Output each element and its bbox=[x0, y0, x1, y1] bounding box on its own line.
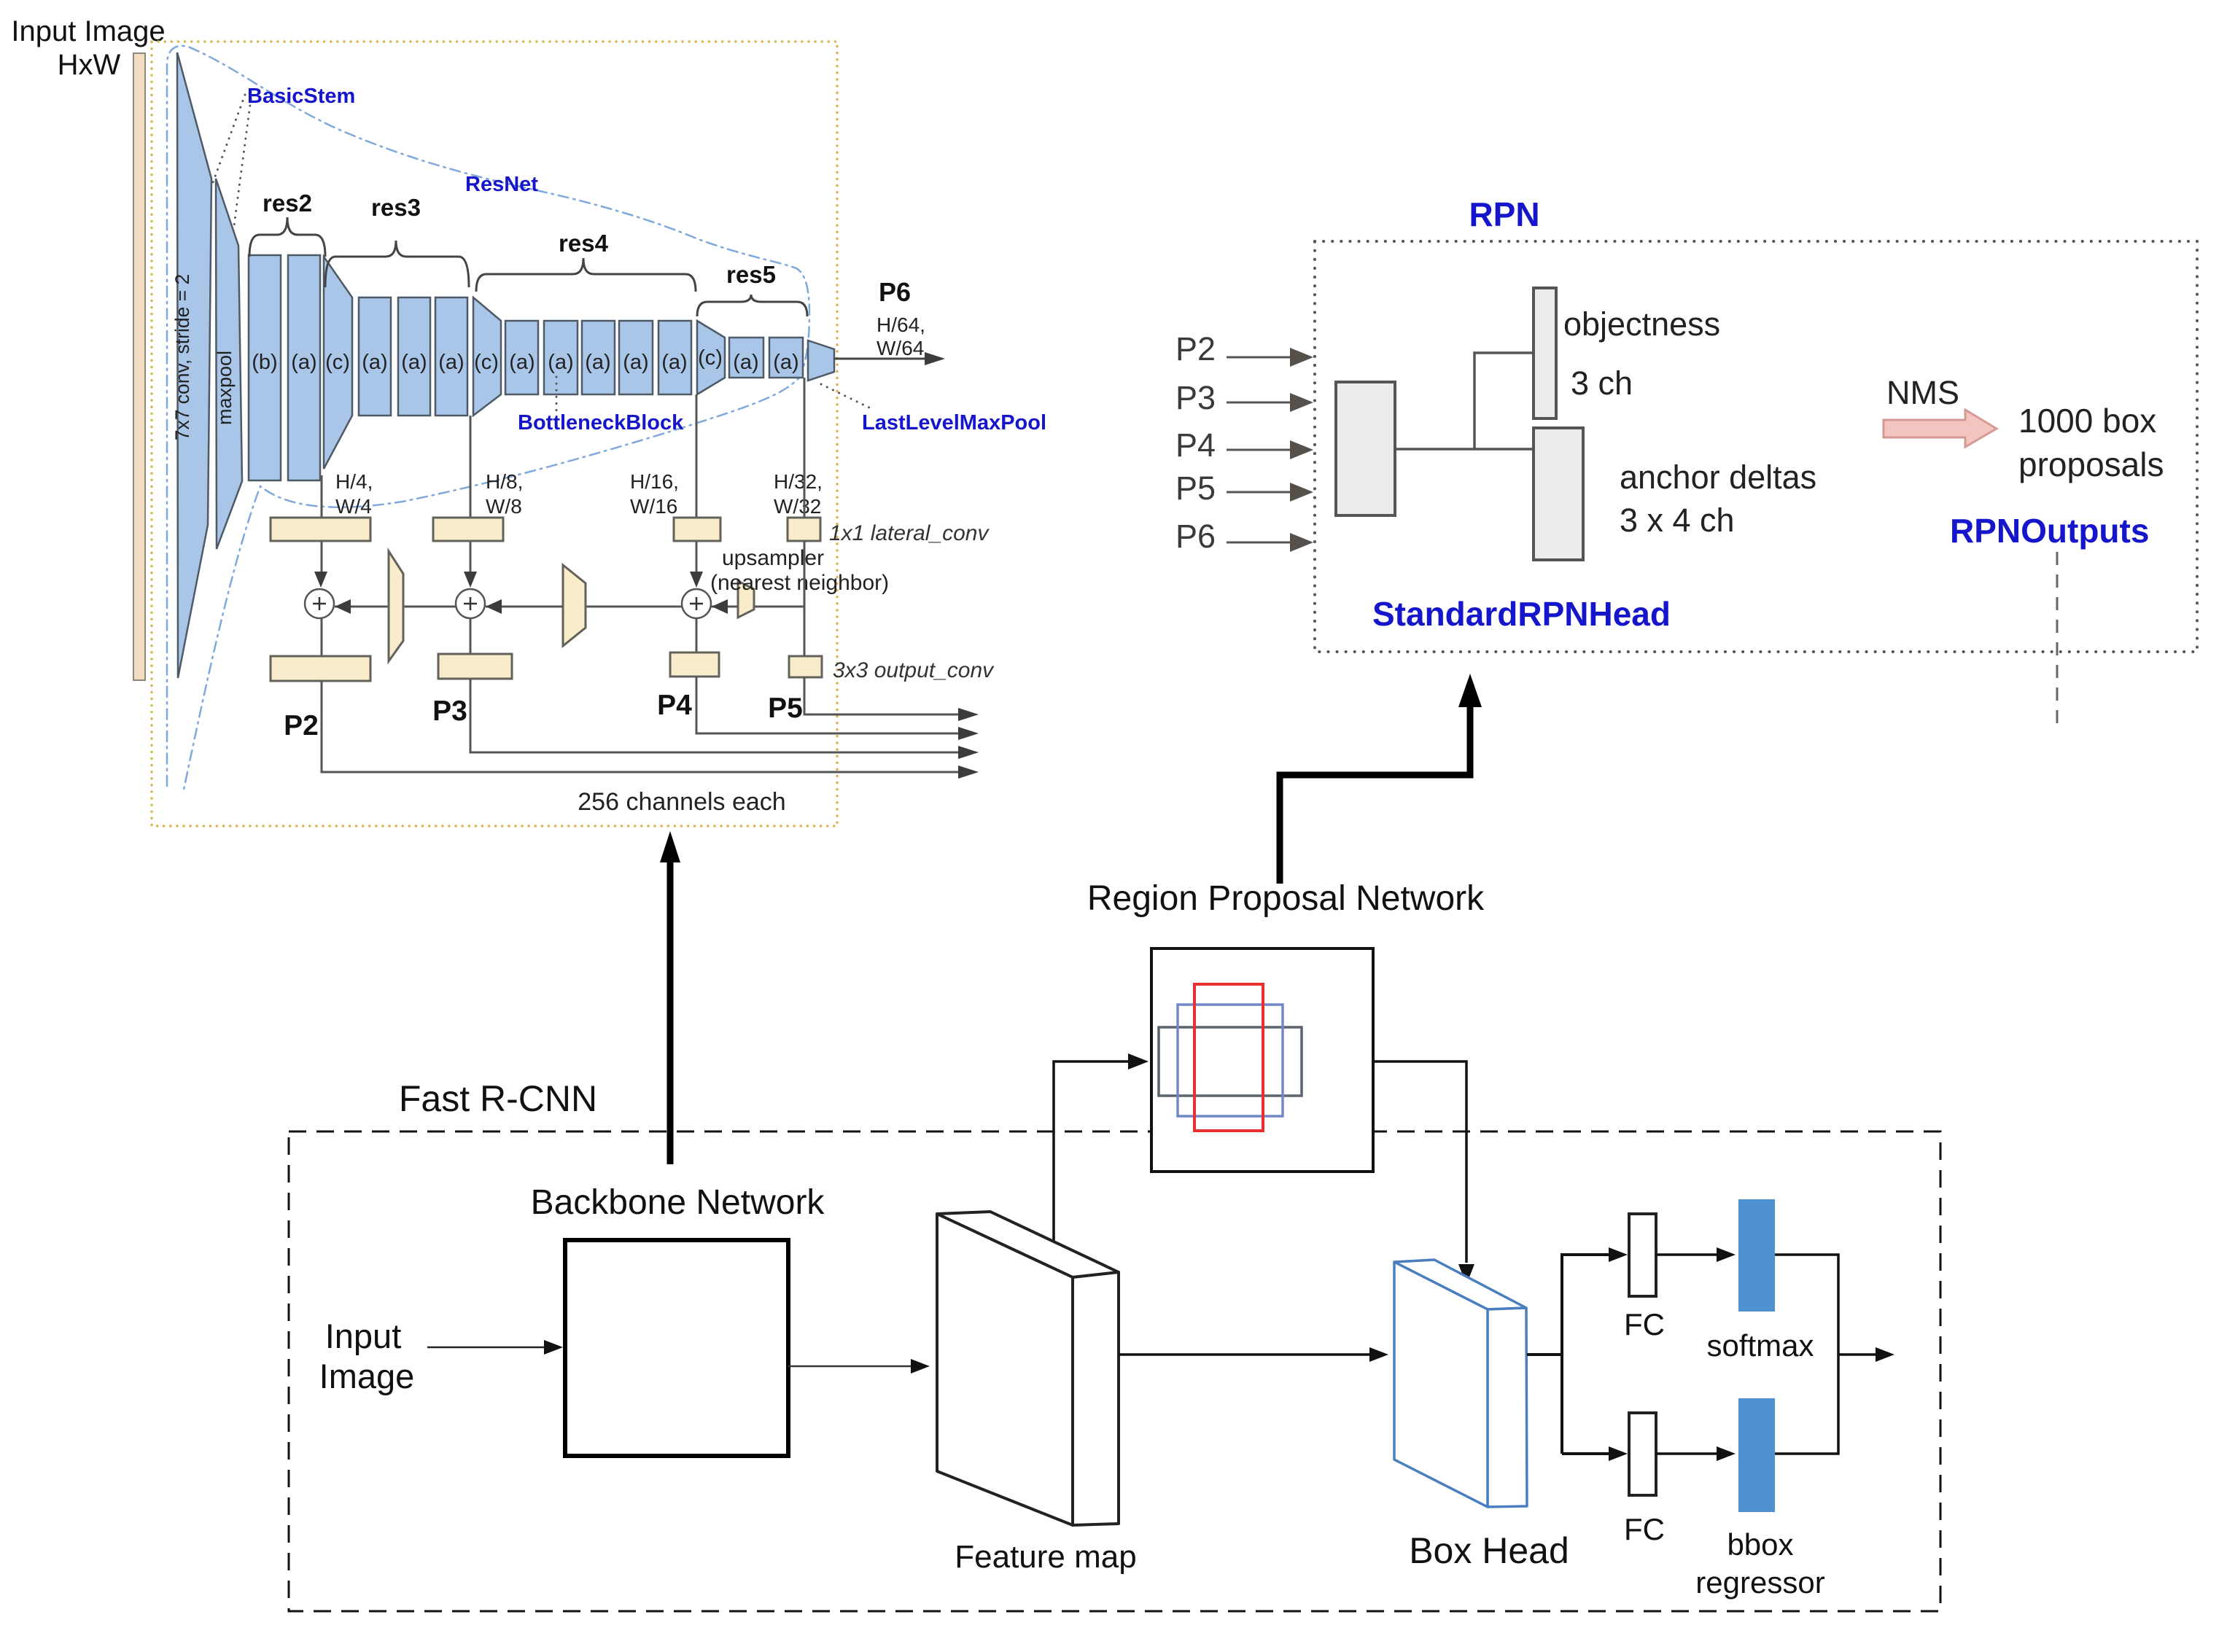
svg-text:res4: res4 bbox=[559, 230, 609, 257]
svg-text:P3: P3 bbox=[1175, 379, 1216, 416]
svg-text:P5: P5 bbox=[1175, 470, 1216, 507]
svg-text:(a): (a) bbox=[509, 351, 535, 374]
svg-text:H/8,: H/8, bbox=[486, 470, 523, 493]
thick arrow Backbone Network to FPN bbox=[667, 860, 674, 1164]
wire P5 down and out bbox=[804, 541, 961, 714]
arrowhead into sum P3 bbox=[486, 599, 502, 614]
wire P3 down and out bbox=[470, 679, 961, 752]
res5 block (a) 1 bbox=[729, 338, 763, 378]
svg-text:H/16,: H/16, bbox=[630, 470, 679, 493]
sum node P4 bbox=[682, 589, 711, 618]
wire P2 down and out bbox=[322, 681, 961, 772]
FPN yellow dotted border bbox=[152, 42, 837, 826]
dotted pointer BasicStem to 7x7 conv bbox=[191, 95, 245, 242]
anchor rect gray bbox=[1159, 1027, 1302, 1096]
conv block 7x7 stem bbox=[177, 52, 211, 678]
svg-text:Region Proposal Network: Region Proposal Network bbox=[1087, 879, 1485, 918]
svg-text:P6: P6 bbox=[1175, 518, 1216, 555]
wire column P5 top bbox=[804, 378, 806, 519]
svg-text:H/32,: H/32, bbox=[774, 470, 823, 493]
objectness head box bbox=[1534, 288, 1556, 418]
brace res2 bbox=[249, 217, 325, 257]
svg-text:(a): (a) bbox=[661, 351, 687, 374]
svg-text:(a): (a) bbox=[362, 351, 387, 374]
RPNOutputs dashed wire bbox=[2056, 552, 2059, 729]
res3 block (a) 1 bbox=[359, 297, 391, 416]
sum node P2 bbox=[305, 589, 334, 618]
output conv box P2 bbox=[271, 656, 370, 681]
NMS pink arrow bbox=[1884, 410, 1997, 447]
svg-text:LastLevelMaxPool: LastLevelMaxPool bbox=[862, 411, 1046, 435]
res3 block (a) 2 bbox=[398, 297, 430, 416]
res4 block (a) 4 bbox=[619, 321, 653, 394]
lateral conv box P2 bbox=[271, 518, 370, 541]
wire FC1 to softmax bbox=[1656, 1253, 1724, 1256]
RPN conv box bbox=[1336, 382, 1395, 515]
res3 block (a) 3 bbox=[435, 297, 467, 416]
svg-text:Image: Image bbox=[319, 1357, 415, 1395]
svg-text:H/64,: H/64, bbox=[877, 313, 925, 336]
svg-text:Backbone Network: Backbone Network bbox=[531, 1183, 825, 1222]
wire P2 into RPN bbox=[1227, 356, 1292, 359]
svg-text:Input: Input bbox=[325, 1317, 402, 1355]
thick elbow arrow RPN label to RPN box bbox=[1280, 704, 1470, 884]
wire P4 down and out bbox=[696, 677, 961, 733]
lateral conv box P5 bbox=[788, 518, 820, 541]
wire P6 out of LastLevelMaxPool bbox=[834, 358, 928, 360]
svg-text:3x3 output_conv: 3x3 output_conv bbox=[833, 658, 995, 682]
svg-text:RPNOutputs: RPNOutputs bbox=[1950, 512, 2149, 550]
dotted pointer BasicStem to maxpool bbox=[226, 99, 251, 286]
wire P3 into RPN bbox=[1227, 402, 1292, 404]
lateral conv box P3 bbox=[433, 518, 503, 541]
wire final output arrow bbox=[1838, 1353, 1883, 1356]
output conv box P4 bbox=[670, 652, 719, 677]
wire feature map to box head bbox=[1119, 1353, 1377, 1356]
dotted pointer BottleneckBlock bbox=[556, 377, 558, 412]
wire sum to output conv P4 bbox=[696, 618, 698, 654]
wire outputs merge bbox=[1775, 1255, 1838, 1454]
wire lateral into sum P3 bbox=[470, 541, 472, 574]
res4 block (a) 1 bbox=[505, 321, 538, 394]
svg-text:BasicStem: BasicStem bbox=[247, 85, 355, 108]
anchor rect blue bbox=[1178, 1005, 1283, 1116]
svg-text:objectness: objectness bbox=[1563, 305, 1720, 343]
svg-text:Box Head: Box Head bbox=[1409, 1530, 1569, 1571]
upsampler trapezoid P2 bbox=[389, 551, 403, 661]
res5 block (c) bbox=[697, 321, 725, 394]
svg-text:W/8: W/8 bbox=[486, 495, 522, 518]
svg-text:W/32: W/32 bbox=[774, 495, 821, 518]
res5 block (a) 2 bbox=[769, 338, 803, 378]
svg-text:P2: P2 bbox=[1175, 330, 1216, 367]
svg-text:HxW: HxW bbox=[58, 49, 121, 81]
svg-text:(a): (a) bbox=[585, 351, 610, 374]
svg-text:res3: res3 bbox=[371, 194, 421, 221]
svg-text:proposals: proposals bbox=[2018, 445, 2164, 483]
FC box 1 bbox=[1629, 1214, 1656, 1296]
svg-text:P4: P4 bbox=[1175, 426, 1216, 464]
svg-text:maxpool: maxpool bbox=[214, 351, 236, 425]
res4 block (a) 3 bbox=[582, 321, 615, 394]
svg-text:(b): (b) bbox=[252, 351, 277, 374]
arrowhead into sum P4 bbox=[712, 599, 728, 614]
output conv box P5 bbox=[789, 656, 822, 677]
svg-text:RPN: RPN bbox=[1469, 195, 1539, 233]
upsampler trapezoid P4 bbox=[738, 581, 754, 617]
bbox regressor block bbox=[1738, 1398, 1775, 1512]
softmax block bbox=[1738, 1199, 1775, 1312]
wire sum to output conv P3 bbox=[470, 618, 472, 655]
svg-text:(a): (a) bbox=[438, 351, 464, 374]
svg-text:(c): (c) bbox=[698, 346, 723, 370]
sum node P3 bbox=[456, 589, 485, 618]
brace res5 bbox=[697, 295, 807, 316]
wire backbone to feature map bbox=[788, 1365, 919, 1368]
RPN dotted box bbox=[1315, 241, 2197, 652]
res4 block (c) bbox=[473, 297, 501, 416]
ResNet dash-dot outline bbox=[167, 46, 809, 790]
svg-text:1x1 lateral_conv: 1x1 lateral_conv bbox=[829, 521, 990, 545]
svg-text:P5: P5 bbox=[768, 693, 803, 724]
svg-text:H/4,: H/4, bbox=[335, 470, 373, 493]
res2 block (a) bbox=[288, 255, 320, 480]
svg-text:(a): (a) bbox=[623, 351, 648, 374]
wire column P4 top bbox=[696, 394, 698, 519]
brace res4 bbox=[476, 258, 696, 292]
svg-text:P4: P4 bbox=[657, 690, 692, 721]
FC box 2 bbox=[1629, 1413, 1656, 1495]
svg-text:W/64: W/64 bbox=[877, 337, 924, 359]
svg-text:res2: res2 bbox=[263, 190, 312, 217]
anchor deltas head box bbox=[1534, 428, 1583, 560]
wire feature map to RPN anchors box bbox=[1054, 1061, 1132, 1253]
svg-text:upsampler: upsampler bbox=[722, 546, 824, 570]
lateral conv box P4 bbox=[674, 518, 720, 541]
svg-text:ResNet: ResNet bbox=[465, 173, 538, 196]
wire P4 into RPN bbox=[1227, 449, 1292, 451]
svg-text:P6: P6 bbox=[879, 277, 911, 307]
maxpool block bbox=[216, 179, 242, 549]
svg-text:3 x 4 ch: 3 x 4 ch bbox=[1620, 502, 1735, 539]
svg-text:FC: FC bbox=[1624, 1307, 1665, 1341]
upsampler trapezoid P3 bbox=[563, 565, 586, 646]
svg-text:NMS: NMS bbox=[1886, 374, 1959, 411]
svg-text:(a): (a) bbox=[733, 351, 758, 374]
svg-text:256 channels each: 256 channels each bbox=[578, 788, 785, 816]
wire P6 into RPN bbox=[1227, 542, 1292, 544]
svg-text:softmax: softmax bbox=[1706, 1328, 1814, 1363]
dotted pointer LastLevelMaxPool bbox=[821, 384, 874, 410]
svg-text:(a): (a) bbox=[548, 351, 573, 374]
svg-text:W/16: W/16 bbox=[630, 495, 677, 518]
feature map slab bbox=[937, 1212, 1119, 1277]
Fast R-CNN dashed box bbox=[289, 1131, 1940, 1611]
svg-text:(a): (a) bbox=[291, 351, 316, 374]
wire split to FC2 bbox=[1562, 1452, 1616, 1455]
svg-text:anchor deltas: anchor deltas bbox=[1620, 459, 1816, 496]
svg-text:P3: P3 bbox=[432, 696, 467, 727]
RPN anchors box bbox=[1151, 948, 1373, 1172]
LastLevelMaxPool trapezoid bbox=[808, 340, 834, 381]
svg-text:res5: res5 bbox=[726, 261, 776, 288]
svg-text:P2: P2 bbox=[284, 710, 319, 741]
svg-text:1000 box: 1000 box bbox=[2018, 402, 2156, 440]
wire conv to heads bbox=[1395, 353, 1534, 449]
wire sum to output conv P2 bbox=[321, 618, 323, 658]
svg-text:BottleneckBlock: BottleneckBlock bbox=[518, 411, 684, 435]
wire FC2 to bbox regressor bbox=[1656, 1452, 1724, 1455]
res2 block (b) bbox=[249, 255, 281, 480]
output conv box P3 bbox=[438, 654, 512, 679]
wire top-down pathway horizontal bbox=[712, 606, 804, 608]
res4 block (a) 5 bbox=[658, 321, 691, 394]
svg-text:StandardRPNHead: StandardRPNHead bbox=[1372, 595, 1671, 633]
svg-text:(c): (c) bbox=[325, 351, 350, 374]
res4 block (a) 2 bbox=[544, 321, 578, 394]
svg-text:7x7 conv, stride = 2: 7x7 conv, stride = 2 bbox=[171, 274, 193, 441]
svg-text:Feature map: Feature map bbox=[955, 1539, 1136, 1575]
svg-text:Input Image: Input Image bbox=[11, 15, 165, 47]
svg-text:bbox: bbox bbox=[1727, 1527, 1793, 1562]
svg-text:FC: FC bbox=[1624, 1512, 1665, 1546]
wire box head to FC split bbox=[1527, 1255, 1616, 1454]
wire input image to backbone bbox=[427, 1347, 551, 1349]
svg-text:(nearest neighbor): (nearest neighbor) bbox=[710, 571, 889, 595]
backbone network box bbox=[565, 1240, 788, 1456]
svg-text:(a): (a) bbox=[773, 351, 798, 374]
svg-text:regressor: regressor bbox=[1695, 1565, 1824, 1600]
svg-text:(c): (c) bbox=[474, 351, 499, 374]
box head slab bbox=[1394, 1260, 1526, 1309]
res3 block (c) bbox=[324, 257, 352, 469]
svg-text:Fast R-CNN: Fast R-CNN bbox=[399, 1078, 597, 1119]
wire lateral into sum P2 bbox=[321, 541, 323, 574]
svg-text:(a): (a) bbox=[401, 351, 427, 374]
wire RPN anchors box to Box Head bbox=[1373, 1061, 1466, 1263]
anchor rect red bbox=[1194, 984, 1263, 1131]
brace res3 bbox=[325, 241, 469, 287]
svg-text:W/4: W/4 bbox=[335, 495, 372, 518]
wire P5 into RPN bbox=[1227, 491, 1292, 494]
wire column P2 top bbox=[321, 475, 323, 519]
wire lateral into sum P4 bbox=[696, 541, 698, 574]
wire column P3 top bbox=[470, 416, 472, 519]
svg-text:3 ch: 3 ch bbox=[1571, 365, 1633, 402]
input image bar bbox=[133, 53, 145, 680]
arrowhead into sum P2 bbox=[335, 599, 351, 614]
